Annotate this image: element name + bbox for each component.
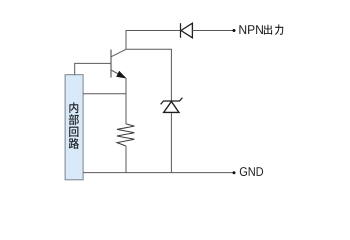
- wire: D1 anode to NPN output terminal: [192, 30, 233, 32]
- zener diode ZD1: [161, 98, 183, 113]
- transistor Q1 (NPN): [111, 49, 127, 78]
- wire: GND rail: [83, 172, 233, 174]
- wire: collector node to zener branch: [126, 49, 171, 100]
- node: GND terminal: [233, 171, 236, 174]
- label 内部回路 (internal circuit): [69, 102, 79, 149]
- diode D1: [181, 23, 193, 38]
- wire: Q1 emitter to resistor R1: [125, 78, 127, 124]
- label NPN出力: [239, 24, 283, 34]
- wire: internal circuit to emitter node: [83, 93, 126, 95]
- wire: R1 to GND rail: [125, 146, 127, 173]
- wire: ZD1 anode to GND rail: [170, 113, 172, 173]
- internal circuit block U1: [65, 75, 83, 180]
- label GND: [240, 167, 247, 176]
- wire: Q1 collector to diode D1: [126, 31, 180, 50]
- node: NPN output terminal: [233, 29, 236, 32]
- resistor R1: [117, 124, 134, 146]
- wire: internal circuit top to Q1 base: [75, 63, 111, 74]
